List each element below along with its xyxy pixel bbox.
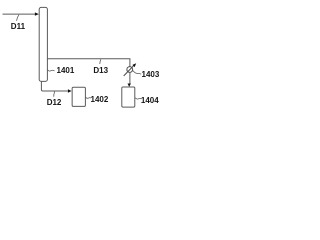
arrowhead into box 1404 <box>128 84 131 87</box>
svg-text:1402: 1402 <box>91 95 109 104</box>
svg-text:1404: 1404 <box>141 96 159 105</box>
box 1402 <box>72 87 85 106</box>
arrowhead into box 1402 <box>68 89 72 92</box>
svg-text:1401: 1401 <box>57 66 75 75</box>
svg-text:D12: D12 <box>47 98 62 107</box>
wire column bottom outlet D12 <box>41 82 68 91</box>
leader D11 <box>17 15 19 21</box>
wire D11 feed line <box>3 13 36 15</box>
svg-text:D11: D11 <box>11 22 26 31</box>
arrowhead into column <box>35 12 39 15</box>
box 1404 <box>122 87 135 107</box>
svg-text:D13: D13 <box>93 66 108 75</box>
diagonal line through circle <box>124 65 134 76</box>
leader 1402 <box>85 97 91 98</box>
leader 1404 <box>135 98 141 99</box>
wire D13 top line <box>47 59 129 67</box>
wire circle to box 1404 <box>129 73 131 84</box>
leader D12 <box>54 92 55 97</box>
column 1401 <box>39 7 47 81</box>
svg-text:1403: 1403 <box>142 70 160 79</box>
leader 1403 <box>133 71 141 75</box>
arrowhead of diagonal <box>132 63 136 67</box>
leader D13 <box>100 59 101 64</box>
circle symbol 1403 <box>127 67 133 73</box>
leader 1401 <box>48 70 55 71</box>
